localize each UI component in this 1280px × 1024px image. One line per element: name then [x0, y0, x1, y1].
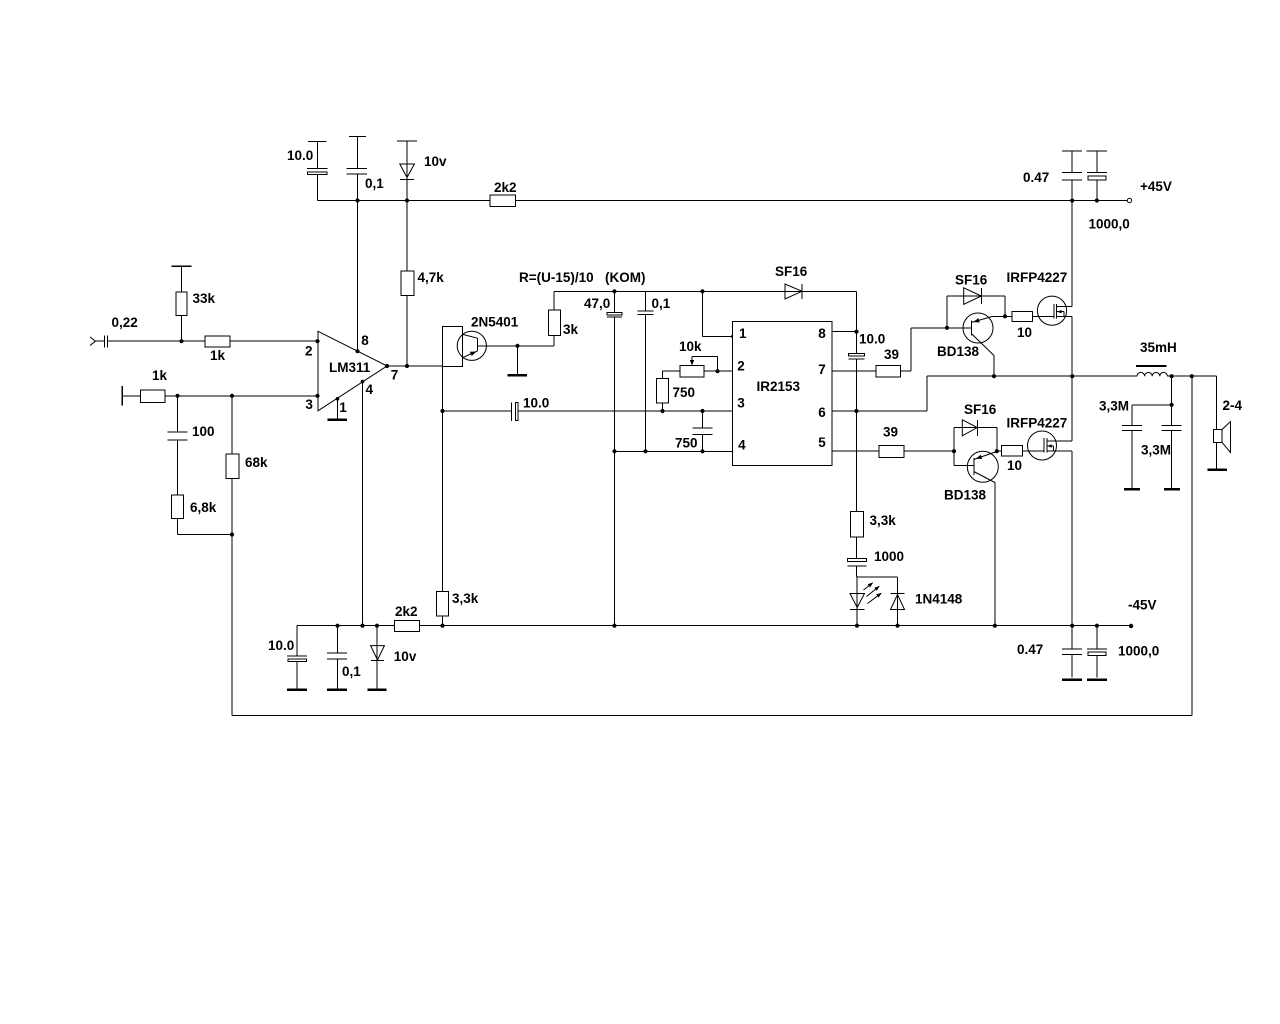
- svg-text:2-4: 2-4: [1223, 398, 1243, 413]
- svg-text:1k: 1k: [152, 368, 168, 383]
- MOSFET M1 IRFP4227 (high): [1007, 201, 1073, 377]
- svg-text:4,7k: 4,7k: [418, 270, 445, 285]
- LED: [850, 582, 882, 609]
- resistor 33k: [171, 266, 215, 341]
- MOSFET M2 IRFP4227 (low): [1007, 376, 1073, 626]
- node dot 0,1 on +45 rail: [355, 198, 359, 202]
- capacitor 0,1 (top left): [347, 137, 367, 201]
- node dot after inductor: [1170, 374, 1174, 378]
- node dot 3,3k left on rail: [440, 624, 444, 628]
- wire Q1 to 3k: [518, 336, 555, 346]
- resistor 1k (lower input): [141, 368, 168, 403]
- wire pin8 stub: [832, 331, 856, 333]
- capacitor 0,22 (input): [95, 335, 181, 347]
- node dot pin4 wire on rail: [360, 624, 364, 628]
- svg-text:10: 10: [1007, 458, 1022, 473]
- svg-text:10v: 10v: [424, 154, 447, 169]
- node dot bootstrap bottom pin6 wire: [854, 409, 858, 413]
- zener diode 10v (bottom left): [368, 626, 417, 690]
- capacitor 47,0 (electrolytic): [584, 291, 622, 625]
- node dot 47,0 pin4 wire: [612, 449, 616, 453]
- svg-text:SF16: SF16: [955, 273, 988, 288]
- node dot 0,1 bottom on rail: [335, 624, 339, 628]
- svg-text:+45V: +45V: [1140, 179, 1172, 194]
- resistor 10 (high gate): [1005, 312, 1038, 341]
- svg-text:3k: 3k: [563, 322, 579, 337]
- node dot Q1 emitter: [515, 344, 519, 348]
- node dot M2 source on rail: [1070, 624, 1074, 628]
- svg-text:3: 3: [737, 395, 745, 410]
- resistor 3,3k (left): [437, 591, 479, 626]
- svg-text:3,3k: 3,3k: [452, 591, 479, 606]
- svg-text:3: 3: [305, 397, 313, 412]
- svg-text:(KOM): (KOM): [605, 270, 646, 285]
- capacitor 10.0 (coupling electrolytic): [511, 402, 518, 421]
- svg-text:LM311: LM311: [329, 360, 371, 375]
- node dot 750 cap top: [700, 409, 704, 413]
- svg-text:47,0: 47,0: [584, 296, 610, 311]
- resistor 68k: [226, 396, 268, 716]
- resistor 1k (to pin2): [205, 336, 230, 363]
- speaker 2-4: [1208, 376, 1243, 469]
- svg-text:33k: 33k: [193, 291, 216, 306]
- diode SF16 (top): [775, 264, 808, 299]
- resistor 39 (high side): [876, 347, 901, 377]
- wire pin1 line: [703, 291, 733, 336]
- wire input node to 1k: [182, 340, 206, 342]
- svg-text:SF16: SF16: [964, 402, 997, 417]
- svg-text:1000,0: 1000,0: [1089, 217, 1130, 232]
- svg-text:10: 10: [1017, 325, 1032, 340]
- wire feedback bottom: [232, 376, 1192, 715]
- svg-text:4: 4: [738, 438, 746, 453]
- node dot 750/pin3 wire: [660, 409, 664, 413]
- svg-text:2: 2: [737, 358, 745, 373]
- wire output to inductor: [1072, 375, 1137, 377]
- node dot zener on +45 rail: [405, 198, 409, 202]
- wire pin3 line: [443, 410, 733, 412]
- capacitor 0,1 (mid): [638, 291, 671, 451]
- resistor 4,7k: [401, 201, 444, 367]
- wire +45V rail right segment: [516, 200, 1129, 202]
- svg-text:750: 750: [673, 385, 696, 400]
- capacitor 10.0 (bottom left electrolytic): [268, 626, 307, 690]
- node dot BD138 low collector on rail: [993, 624, 997, 628]
- svg-text:1: 1: [739, 326, 747, 341]
- inductor 35mH: [1136, 340, 1177, 376]
- capacitor 0.47 (top right): [1062, 151, 1082, 200]
- node dot 750 cap bottom: [700, 449, 704, 453]
- resistor 3,3k (mid): [851, 411, 897, 559]
- capacitor 1000,0 (bottom right electrolytic): [1087, 626, 1159, 680]
- node dot low base node: [952, 449, 956, 453]
- capacitor 3,3M (left): [1099, 399, 1142, 490]
- svg-text:IR2153: IR2153: [757, 379, 801, 394]
- ground LM311 pin1: [328, 397, 348, 420]
- node dot 0,1 pin4 wire: [643, 449, 647, 453]
- svg-text:1k: 1k: [210, 348, 226, 363]
- svg-text:4: 4: [366, 382, 374, 397]
- wire pin4 line: [615, 450, 733, 452]
- node dot pin8: [355, 349, 359, 353]
- capacitor 0.47 (bottom right): [1017, 626, 1082, 680]
- svg-text:BD138: BD138: [944, 488, 987, 503]
- wire LED/1N4148 split: [857, 577, 898, 626]
- svg-text:8: 8: [818, 326, 826, 341]
- wire SF16 to pin8 drop: [802, 291, 857, 331]
- node dot 1000,0 bottom on rail: [1095, 624, 1099, 628]
- svg-text:0.47: 0.47: [1017, 642, 1043, 657]
- diode 1N4148: [891, 592, 963, 610]
- diode SF16 (low driver): [954, 402, 997, 451]
- svg-text:39: 39: [884, 347, 899, 362]
- svg-text:1000,0: 1000,0: [1118, 644, 1159, 659]
- node dot gate node (low): [995, 449, 999, 453]
- capacitor 3,3M (right): [1141, 405, 1182, 489]
- wire inductor to speaker: [1167, 375, 1216, 377]
- svg-text:2: 2: [305, 344, 313, 359]
- capacitor 10.0 (bootstrap): [849, 332, 886, 412]
- node dot pin4: [361, 380, 365, 384]
- svg-text:8: 8: [361, 333, 369, 348]
- svg-text:1000: 1000: [874, 549, 904, 564]
- svg-text:750: 750: [675, 436, 698, 451]
- resistor 2k2 (bottom): [394, 604, 419, 632]
- wire pin6 stub: [832, 376, 1072, 411]
- svg-text:SF16: SF16: [775, 264, 808, 279]
- transistor Q2 BD138 (high): [937, 313, 1005, 376]
- svg-text:6,8k: 6,8k: [190, 500, 217, 515]
- node dot 1N4148 on rail: [895, 624, 899, 628]
- svg-text:-45V: -45V: [1128, 598, 1157, 613]
- node dot 4,7k/pin7: [405, 364, 409, 368]
- node dot 68k: [230, 394, 234, 398]
- node dot feedback: [1190, 374, 1194, 378]
- svg-text:3,3k: 3,3k: [870, 513, 897, 528]
- svg-text:2k2: 2k2: [395, 604, 418, 619]
- svg-text:10.0: 10.0: [523, 396, 549, 411]
- node dot 47,0 on rail: [612, 624, 616, 628]
- wire +45V rail left segment: [318, 200, 491, 202]
- wire LM311 pin8 supply: [357, 201, 359, 352]
- svg-text:1N4148: 1N4148: [915, 592, 963, 607]
- svg-text:3,3M: 3,3M: [1099, 399, 1129, 414]
- node dot pin1/KOM: [700, 289, 704, 293]
- svg-text:7: 7: [391, 368, 399, 383]
- node dot zener bottom on rail: [375, 624, 379, 628]
- wire KOM node: [554, 290, 785, 292]
- node dot LED on rail: [855, 624, 859, 628]
- resistor 10 (low gate): [997, 446, 1028, 474]
- svg-text:R=(U-15)/10: R=(U-15)/10: [519, 270, 594, 285]
- wire 1k to LM311 pin2: [230, 340, 318, 342]
- transistor Q1 2N5401: [457, 315, 519, 361]
- wire LM311 pin4: [362, 382, 364, 626]
- node dot 6,8k/68k: [230, 532, 234, 536]
- node dot zobel: [1170, 403, 1174, 407]
- resistor 2k2 (top rail): [490, 180, 517, 206]
- node dot gate node (high): [1003, 314, 1007, 318]
- wire -45V rail right segment: [420, 625, 1131, 627]
- svg-text:10.0: 10.0: [268, 638, 294, 653]
- ground Q1: [508, 346, 528, 375]
- potentiometer 10k: [663, 339, 733, 379]
- resistor 39 (low side): [879, 425, 954, 458]
- node dot pin7: [385, 364, 389, 368]
- node dot pin3: [315, 394, 319, 398]
- svg-text:100: 100: [192, 424, 215, 439]
- resistor 750 (upper): [656, 379, 695, 412]
- input connector: [90, 337, 95, 346]
- node dot pin2: [315, 339, 319, 343]
- node dot pin8: [854, 330, 858, 334]
- svg-text:2k2: 2k2: [494, 180, 517, 195]
- box at Q1 base: [443, 326, 463, 366]
- op-amp U1 LM311: [305, 331, 398, 415]
- terminal +45V: [1127, 198, 1131, 202]
- svg-text:2N5401: 2N5401: [471, 315, 519, 330]
- node dot 100 cap: [175, 394, 179, 398]
- node dot output node: [1070, 374, 1074, 378]
- capacitor 750 (lower): [675, 411, 713, 451]
- wire LM311 pin7 output: [387, 365, 443, 367]
- wire zobel drop: [1132, 376, 1172, 405]
- svg-text:0.47: 0.47: [1023, 170, 1049, 185]
- node dot 0.47 on +45 rail: [1070, 198, 1074, 202]
- node dot 1000,0 on +45 rail: [1095, 198, 1099, 202]
- svg-text:IRFP4227: IRFP4227: [1007, 270, 1068, 285]
- svg-text:5: 5: [818, 435, 826, 450]
- IC U2 IR2153: [732, 322, 832, 466]
- wire 1k to LM311 pin3: [165, 395, 318, 397]
- svg-text:10k: 10k: [679, 339, 702, 354]
- svg-text:3,3M: 3,3M: [1141, 443, 1171, 458]
- wire box to 3,3k: [442, 366, 444, 591]
- svg-text:7: 7: [818, 362, 826, 377]
- resistor 3k: [549, 291, 579, 337]
- zener diode 10v (top left): [397, 141, 417, 201]
- svg-text:0,1: 0,1: [342, 664, 361, 679]
- svg-text:68k: 68k: [245, 455, 268, 470]
- wire -45V rail left segment: [297, 625, 394, 627]
- wire 39 to BD138 base: [901, 328, 972, 371]
- svg-text:35mH: 35mH: [1140, 340, 1177, 355]
- svg-text:0,22: 0,22: [112, 315, 138, 330]
- transistor Q3 BD138 (low): [944, 451, 998, 626]
- node dot input/33k: [179, 339, 183, 343]
- svg-text:6: 6: [818, 405, 826, 420]
- wire terminal to 1k: [122, 395, 141, 397]
- svg-text:0,1: 0,1: [365, 176, 384, 191]
- node dot BD138 collector: [992, 374, 996, 378]
- node dot coupling left: [440, 409, 444, 413]
- svg-text:10.0: 10.0: [287, 148, 313, 163]
- capacitor 100: [168, 396, 188, 495]
- svg-text:10.0: 10.0: [859, 332, 885, 347]
- wire pin7 stub: [832, 370, 876, 372]
- terminal bar (inverting input): [121, 386, 123, 406]
- capacitor 10.0 (top left electrolytic): [307, 141, 328, 200]
- node dot pot wiper/pin2: [715, 369, 719, 373]
- svg-text:39: 39: [883, 425, 898, 440]
- wire pin5 stub: [832, 450, 879, 452]
- capacitor 1000 (electrolytic): [848, 549, 905, 577]
- capacitor 1000,0 (top right electrolytic): [1087, 151, 1108, 200]
- diode SF16 (high driver): [947, 273, 1005, 328]
- svg-text:0,1: 0,1: [652, 296, 671, 311]
- node dot 47,0 top: [612, 289, 616, 293]
- node dot base/diode: [945, 326, 949, 330]
- resistor 6,8k: [172, 495, 233, 535]
- node dot IR2153 pin1 stub: [731, 335, 734, 338]
- svg-text:1: 1: [339, 400, 347, 415]
- svg-text:10v: 10v: [394, 649, 417, 664]
- terminal -45V: [1129, 624, 1133, 628]
- svg-text:BD138: BD138: [937, 344, 980, 359]
- svg-text:IRFP4227: IRFP4227: [1007, 416, 1068, 431]
- capacitor 0,1 (bottom left): [327, 626, 361, 690]
